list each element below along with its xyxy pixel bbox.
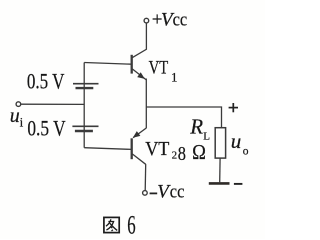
transistor Q1 emitter arrow (NPN out) [137, 72, 145, 79]
label VT1 [149, 58, 178, 85]
svg-text:Ω: Ω [192, 140, 206, 164]
battery B1 long plate [73, 83, 99, 85]
label +Vcc [152, 10, 187, 31]
label VT2 [145, 139, 177, 162]
svg-text:cc: cc [170, 182, 185, 203]
wire input to battery midpoint [21, 103, 84, 105]
terminal +Vcc [144, 18, 149, 23]
battery stack vertical wire [83, 63, 85, 148]
caption: character tu (figure) [104, 217, 119, 232]
svg-text:R: R [189, 115, 203, 139]
svg-text:i: i [20, 115, 24, 130]
plus sign output [229, 103, 238, 112]
node: output junction / wire to RL [146, 107, 221, 128]
battery B2 long plate [72, 125, 98, 127]
wire battery top corner to VT1 base [84, 63, 131, 65]
wire VT2 collector to -Vcc terminal [144, 164, 147, 190]
svg-text:1: 1 [171, 69, 178, 84]
svg-text:o: o [243, 146, 249, 158]
label RL value 8 ohm [178, 140, 206, 165]
transistor Q2 collector line [132, 154, 145, 164]
terminal input ui [16, 102, 21, 107]
wire RL bottom to ground [219, 158, 221, 182]
svg-text:2: 2 [172, 150, 178, 162]
battery B2 short plate [75, 130, 93, 132]
minus sign of -Vcc [150, 192, 158, 194]
wire battery bottom corner to VT2 base [84, 148, 131, 150]
label ui [10, 105, 24, 129]
transistor Q2 emitter arrow (PNP in) [133, 131, 141, 138]
transistor Q1 emitter line [132, 69, 146, 80]
transistor Q2 base bar (VT2) [131, 138, 133, 159]
svg-text:cc: cc [173, 10, 188, 31]
svg-text:VT: VT [149, 58, 169, 79]
svg-text:0.5 V: 0.5 V [27, 116, 65, 141]
wire from +Vcc terminal to VT1 collector [132, 23, 146, 57]
resistor RL body [215, 128, 225, 158]
svg-text:VT: VT [145, 139, 169, 160]
label RL [189, 115, 210, 143]
label -Vcc [157, 182, 184, 203]
svg-text:8: 8 [178, 143, 186, 165]
svg-text:u: u [231, 129, 242, 153]
ground bar [209, 182, 230, 185]
wire emitters junction vertical [145, 79, 147, 129]
minus sign output [234, 183, 243, 185]
label uo [231, 129, 249, 158]
svg-text:6: 6 [127, 210, 135, 239]
terminal -Vcc [143, 191, 148, 196]
battery B1 short plate [76, 87, 94, 89]
svg-text:L: L [203, 130, 210, 142]
transistor Q2 emitter line [133, 128, 146, 138]
svg-text:0.5 V: 0.5 V [27, 69, 65, 94]
transistor Q1 base bar (VT1) [131, 55, 133, 74]
svg-text:u: u [10, 105, 20, 127]
